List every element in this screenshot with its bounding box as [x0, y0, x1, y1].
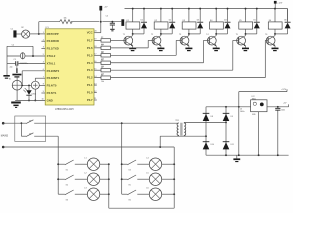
svg-text:TR1: TR1 — [175, 120, 179, 122]
switch S2 (reset) — [21, 27, 30, 38]
svg-text:+12V: +12V — [277, 3, 283, 5]
wire rail to diode D5 — [256, 8, 258, 22]
wire transformer bottom line — [160, 135, 207, 137]
wire lamp L6 to right return bus — [162, 193, 175, 195]
wire rail to relay K1 coil — [132, 8, 134, 22]
relay K2 coil — [154, 20, 168, 29]
wire bottom return — [109, 207, 174, 209]
transistor T1 — [123, 34, 133, 48]
svg-text:1: 1 — [43, 32, 44, 34]
svg-text:2: 2 — [43, 39, 44, 41]
svg-text:S1: S1 — [29, 120, 31, 122]
wire relay K1 coil to collector node — [132, 29, 134, 35]
diode D1 — [141, 20, 147, 29]
svg-text:16: 16 — [94, 61, 96, 63]
svg-text:K1: K1 — [66, 170, 68, 172]
wire mains N line — [3, 146, 174, 148]
lamp L5 — [146, 173, 161, 186]
svg-text:9: 9 — [43, 91, 44, 93]
wire relay K4 coil to collector node — [215, 29, 217, 35]
svg-text:11: 11 — [94, 98, 96, 100]
wire +5V line left segment — [39, 21, 60, 23]
wire sensor to P3.3 — [35, 76, 45, 81]
svg-text:P3.0/RXD: P3.0/RXD — [47, 39, 59, 43]
wire +12V rail — [125, 8, 288, 10]
wire R3 to T2 base — [111, 40, 155, 47]
svg-text:XTAL2: XTAL2 — [47, 54, 56, 58]
capacitor C4 (polarized bar) — [121, 19, 124, 26]
node VCC junction — [100, 21, 102, 23]
node plus junction — [238, 106, 240, 108]
svg-text:P3.5/T1: P3.5/T1 — [47, 91, 57, 95]
svg-text:P1.3: P1.3 — [87, 68, 93, 72]
svg-text:4: 4 — [43, 62, 44, 64]
svg-text:C5: C5 — [106, 15, 108, 17]
relay K6 coil — [268, 20, 282, 29]
svg-text:T2: T2 — [151, 34, 153, 36]
svg-text:AT89C2051-24PI: AT89C2051-24PI — [55, 108, 74, 111]
svg-text:T3: T3 — [179, 34, 181, 36]
svg-text:XTAL1: XTAL1 — [47, 61, 56, 65]
wire contact K3 to lamp L3 — [75, 193, 88, 195]
svg-text:K3: K3 — [66, 200, 68, 202]
wire lamp L4 to right return bus — [162, 163, 175, 165]
transistor T4 — [206, 34, 216, 48]
node lamp feed junction — [121, 122, 123, 124]
wire secondary top to bridge — [184, 121, 227, 123]
wire contact K5 to lamp L5 — [137, 178, 149, 180]
wire diode D2 to collector node — [161, 28, 172, 34]
svg-text:LED1: LED1 — [32, 94, 36, 96]
svg-text:T5: T5 — [236, 34, 238, 36]
ground for C5 — [110, 29, 114, 32]
wire contact K4 to lamp L4 — [137, 163, 149, 165]
svg-text:T6: T6 — [265, 34, 267, 36]
node RST junction — [38, 33, 40, 35]
wire XTAL2 line — [7, 54, 45, 56]
wire +5V flag down to VCC pin — [100, 11, 102, 33]
wire R2 to T1 base — [111, 39, 126, 41]
svg-text:R3: R3 — [101, 44, 103, 46]
power flag +5V (supply) — [283, 103, 289, 107]
svg-text:P1.0: P1.0 — [87, 91, 93, 95]
wire mains L to switch — [3, 122, 26, 124]
transistor T3 — [179, 34, 189, 48]
resistor R4 — [94, 52, 111, 61]
svg-text:R6: R6 — [101, 67, 103, 69]
wire R7 to T6 base — [111, 40, 269, 77]
svg-text:15: 15 — [94, 68, 96, 70]
svg-text:22p: 22p — [10, 66, 13, 68]
wire node up to P3.2 — [22, 69, 45, 86]
relay contact K5 — [122, 175, 136, 187]
svg-text:P1.2: P1.2 — [87, 76, 93, 80]
svg-text:1000u: 1000u — [240, 111, 245, 113]
svg-text:7: 7 — [43, 76, 44, 78]
wire diode D6 to collector node — [275, 28, 288, 34]
switch box S1 — [15, 116, 46, 141]
pin 1 number — [43, 32, 44, 34]
svg-text:R5: R5 — [101, 59, 103, 61]
pin stub P3.0 — [41, 39, 45, 41]
svg-text:10k: 10k — [101, 81, 104, 83]
svg-text:+12V: +12V — [281, 89, 287, 91]
wire ground to buzzer — [16, 78, 18, 81]
ground supply — [233, 155, 240, 162]
capacitor C7 — [275, 107, 285, 155]
wire relay K3 coil to collector node — [188, 29, 190, 35]
wire lamp L1 to left return bus — [100, 163, 110, 165]
lamp L1 — [84, 158, 99, 171]
node right bus row 3 — [0, 0, 1, 1]
resistor R6 — [94, 67, 111, 76]
wire P3.4 row — [39, 84, 45, 86]
lamp L4 — [146, 158, 161, 171]
capacitor C3 — [7, 59, 18, 65]
svg-text:P3.4/T0: P3.4/T0 — [47, 84, 57, 88]
pin stub P1.1 — [94, 83, 97, 85]
diode D5 — [253, 20, 259, 29]
svg-text:D9: D9 — [231, 116, 233, 118]
wire relay K5 coil to collector node — [245, 29, 247, 35]
ground of T5 — [242, 48, 249, 52]
wire C1 to S2 — [17, 33, 22, 35]
wire diode D1 to collector node — [133, 28, 144, 34]
svg-text:3: 3 — [43, 47, 44, 49]
wire contact K6 to lamp L6 — [137, 193, 149, 195]
svg-text:P1.4: P1.4 — [87, 61, 93, 65]
resistor R2 — [94, 37, 111, 46]
svg-text:D8: D8 — [211, 116, 213, 118]
relay K3 coil — [182, 20, 196, 29]
node mains L terminal — [2, 122, 5, 125]
wire S2 to RST pin — [30, 33, 45, 35]
relay contact K1 — [58, 160, 73, 172]
switch S1 pole A — [21, 120, 34, 124]
wire regulator ground — [258, 112, 260, 156]
wire diode D4 to collector node — [216, 28, 227, 34]
svg-text:P1.7: P1.7 — [87, 38, 93, 42]
node N to transformer — [159, 136, 161, 148]
svg-text:20: 20 — [94, 31, 96, 33]
wire regulator output — [267, 106, 289, 108]
node left bus row 2 — [57, 178, 59, 180]
wire bridge left leg — [205, 107, 207, 155]
wire rail to relay K2 coil — [160, 8, 162, 22]
label MAINS — [1, 134, 9, 137]
pin stub P1.0 — [94, 91, 97, 93]
diode D10 — [203, 141, 214, 149]
wire rail to diode D1 — [143, 8, 145, 22]
wire R1 to +5V tap — [71, 21, 99, 23]
transformer X1 secondary — [184, 122, 186, 136]
wire supply ground rail — [206, 154, 289, 156]
wire plus up to +12V flag — [239, 92, 287, 107]
transistor T2 — [151, 34, 161, 48]
relay K1 coil — [126, 20, 140, 29]
ground of T6 — [272, 48, 279, 52]
svg-text:MAINS: MAINS — [1, 134, 9, 137]
diode D6 — [284, 20, 290, 29]
transformer X1 core — [181, 123, 182, 136]
wire lamp L2 to left return bus — [100, 178, 110, 180]
wire rail to relay K4 coil — [215, 8, 217, 22]
svg-text:RST/VPP: RST/VPP — [47, 32, 59, 36]
wire sensor down to GND wire — [34, 89, 36, 101]
svg-text:B1: B1 — [9, 79, 11, 81]
wire contact K2 to lamp L2 — [75, 178, 88, 180]
wire rail to diode D2 — [171, 8, 173, 22]
power flag +12V (supply) — [281, 89, 287, 91]
wire XTAL1 line — [18, 62, 45, 64]
diode D9 — [223, 113, 233, 121]
op-amp U1 microcontroller IC1 AT89C2051 — [45, 27, 94, 111]
ground left caps — [3, 63, 9, 78]
wire RST junction up — [38, 22, 40, 34]
relay contact K6 — [122, 190, 136, 202]
svg-text:K2: K2 — [66, 185, 68, 187]
wire lamp L3 to left return bus — [100, 193, 110, 195]
capacitor C1 — [11, 28, 17, 37]
wire rail to relay K3 coil — [188, 8, 190, 22]
wire diode D3 to collector node — [189, 28, 200, 34]
wire relay K6 coil to collector node — [274, 29, 276, 35]
svg-text:S1: S1 — [29, 134, 31, 136]
svg-text:13: 13 — [94, 83, 96, 85]
LED D7 — [23, 84, 36, 101]
svg-text:P1.6: P1.6 — [87, 46, 93, 50]
wire pin 20 stub — [94, 31, 101, 33]
node right bus row 1 — [121, 163, 123, 165]
lamp L2 — [84, 173, 99, 186]
svg-text:K5: K5 — [129, 185, 131, 187]
resistor R3 — [94, 44, 111, 53]
wire buzzer to GND wire — [16, 90, 18, 100]
node left bus row 1 — [57, 163, 59, 165]
wire link to pole B — [21, 123, 26, 136]
diode D2 — [169, 20, 175, 29]
svg-text:P3.1/TXD: P3.1/TXD — [47, 47, 59, 51]
ground of T4 — [213, 48, 220, 52]
lamp L6 — [146, 188, 161, 201]
wire relay K2 coil to collector node — [160, 29, 162, 35]
svg-text:17: 17 — [94, 54, 96, 56]
svg-text:10k: 10k — [64, 17, 67, 19]
svg-text:100n: 100n — [281, 110, 285, 112]
ground of T3 — [185, 48, 192, 52]
wire lamp L5 to right return bus — [162, 178, 175, 180]
diode D4 — [224, 20, 230, 29]
wire lamp feed right bus — [121, 123, 123, 194]
pin stub P3.7 — [94, 98, 97, 100]
pin stub P3.1 — [41, 47, 45, 49]
resistor R5 — [94, 59, 111, 68]
svg-text:D2: D2 — [169, 20, 171, 22]
svg-text:R4: R4 — [101, 52, 103, 54]
capacitor C2 loop — [7, 44, 34, 63]
pin stub P3.5 — [41, 91, 45, 93]
svg-text:T1: T1 — [123, 34, 125, 36]
node right bus row 2 — [121, 178, 123, 180]
diode D3 — [197, 20, 203, 29]
crystal Q1 — [20, 52, 29, 65]
svg-text:10: 10 — [41, 99, 43, 101]
svg-text:P1.5: P1.5 — [87, 53, 93, 57]
svg-text:D3: D3 — [197, 20, 199, 22]
svg-text:D11: D11 — [231, 144, 234, 146]
wire bridge right leg — [225, 107, 227, 155]
svg-text:P3.3/INT1: P3.3/INT1 — [47, 76, 60, 80]
wire rail to diode D6 — [287, 9, 289, 22]
power flag +5V — [99, 6, 108, 11]
resistor R1 — [60, 17, 73, 23]
svg-text:R7: R7 — [101, 74, 103, 76]
ground crystal caps — [12, 74, 21, 78]
node output junction — [277, 106, 279, 108]
svg-text:C3: C3 — [13, 59, 15, 61]
sensor S3 — [31, 81, 39, 89]
svg-text:18: 18 — [94, 46, 96, 48]
svg-text:12: 12 — [94, 91, 96, 93]
transistor T5 — [236, 34, 246, 48]
svg-text:T4: T4 — [206, 34, 208, 36]
wire right return bus — [173, 147, 175, 208]
diode D8 — [203, 113, 213, 121]
capacitor C5 — [106, 15, 115, 28]
svg-text:K6: K6 — [129, 200, 131, 202]
svg-text:VCC: VCC — [87, 31, 93, 35]
svg-text:D10: D10 — [211, 144, 214, 146]
svg-text:D4: D4 — [224, 20, 226, 22]
wire left return bus — [108, 164, 110, 208]
svg-text:P1.1: P1.1 — [87, 83, 93, 87]
node mains N terminal — [2, 146, 5, 149]
ground GND pin — [11, 102, 21, 108]
wire switch A out — [34, 122, 177, 124]
switch S1 pole B — [26, 133, 33, 137]
svg-text:K4: K4 — [129, 170, 131, 172]
wire contact K1 to lamp L1 — [75, 163, 88, 165]
capacitor C6 — [239, 107, 245, 155]
wire R6 to T5 base — [111, 40, 239, 70]
svg-text:P3.2/INT0: P3.2/INT0 — [47, 69, 60, 73]
resistor R7 — [94, 74, 111, 83]
svg-text:D1: D1 — [141, 20, 143, 22]
buzzer B1 — [9, 79, 11, 81]
ground of T2 — [157, 48, 164, 52]
wire buzzer to node — [21, 84, 31, 86]
wire diode D5 to collector node — [246, 28, 257, 34]
svg-text:5: 5 — [43, 54, 44, 56]
wire switch B out to left lamp bus — [34, 135, 58, 137]
relay K5 coil — [239, 20, 253, 29]
wire rail to diode D3 — [199, 8, 201, 22]
svg-text:7805: 7805 — [252, 98, 256, 100]
lamp L3 — [84, 188, 99, 201]
relay contact K4 — [122, 160, 136, 172]
relay contact K3 — [58, 190, 73, 202]
wire left lamp bus — [57, 136, 59, 194]
wire rail to diode D4 — [227, 8, 229, 22]
transistor T6 — [265, 34, 275, 48]
svg-text:D6: D6 — [284, 20, 286, 22]
svg-text:R2: R2 — [101, 37, 103, 39]
svg-text:D5: D5 — [253, 20, 255, 22]
wire rail end to diode D6 — [287, 9, 289, 22]
svg-text:4.000MHz: 4.000MHz — [20, 63, 29, 65]
wire R5 to T4 base — [111, 40, 210, 62]
relay contact K2 — [58, 175, 73, 187]
svg-text:6: 6 — [43, 69, 44, 71]
svg-text:14: 14 — [94, 76, 96, 78]
svg-text:P3.7: P3.7 — [87, 98, 93, 102]
capacitor C3 ground leg — [10, 65, 17, 73]
transformer X1 primary — [175, 120, 179, 136]
power flag +12V (rail) — [274, 1, 283, 9]
diode D11 — [223, 141, 234, 149]
wire GND pin row — [15, 99, 45, 101]
wire rail to relay K5 coil — [245, 8, 247, 22]
wire rail to relay K6 coil — [274, 8, 276, 22]
wire bridge plus to regulator — [206, 106, 251, 108]
wire R4 to T3 base — [111, 40, 183, 55]
relay K4 coil — [210, 20, 224, 29]
svg-text:19: 19 — [94, 39, 96, 41]
ground of T1 — [129, 48, 136, 52]
voltage regulator IC2 7805 — [251, 96, 267, 116]
svg-text:8: 8 — [43, 84, 44, 86]
wire +5V tap to cap — [102, 21, 121, 23]
svg-text:GND: GND — [47, 98, 53, 102]
